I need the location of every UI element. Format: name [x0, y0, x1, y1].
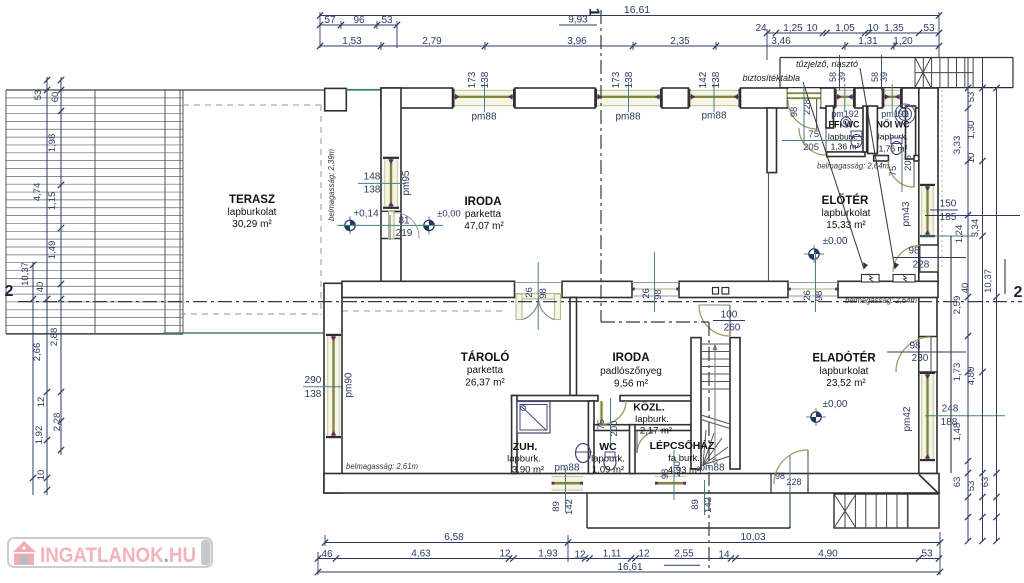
svg-text:39: 39 — [879, 72, 889, 82]
svg-text:205: 205 — [903, 155, 914, 171]
dim row bottom 6,58/10,03 — [322, 532, 943, 546]
svg-text:10: 10 — [867, 23, 879, 34]
svg-text:1,05: 1,05 — [835, 23, 855, 34]
svg-text:lapburkolat: lapburkolat — [820, 366, 869, 377]
window pm95 (148/138) in left wall — [383, 157, 399, 209]
svg-text:150: 150 — [940, 199, 957, 210]
entrance door 98/228 — [788, 89, 821, 130]
svg-text:26,37 m²: 26,37 m² — [465, 378, 505, 389]
outdoor stair bottom-right — [834, 494, 939, 528]
svg-text:1: 1 — [586, 8, 603, 16]
right exterior wall upper — [919, 88, 938, 282]
stair exit dim 98/230 — [660, 450, 683, 500]
eladoter bottom door 98/228 — [771, 450, 808, 493]
pm88 labels top — [471, 111, 726, 123]
svg-text:tűzjelző, riasztó: tűzjelző, riasztó — [796, 59, 858, 69]
svg-text:9,93: 9,93 — [568, 15, 588, 26]
svg-text:biztosítéktábla: biztosítéktábla — [742, 73, 800, 83]
svg-text:KÖZL.: KÖZL. — [633, 401, 665, 414]
svg-text:WC: WC — [599, 441, 617, 453]
svg-text:173: 173 — [467, 71, 478, 88]
elevation marker eladoter — [806, 408, 826, 426]
wc door 75/200 — [599, 401, 626, 425]
noi wc label — [877, 109, 910, 154]
svg-text:228: 228 — [913, 260, 930, 271]
window dim 148/138 — [358, 170, 412, 195]
svg-text:+0,14: +0,14 — [353, 209, 379, 220]
door dim 81/219 +014 — [337, 209, 461, 241]
window labels 173/138 #2 — [611, 71, 635, 88]
svg-text:185: 185 — [940, 212, 957, 223]
flue box 1 — [713, 288, 719, 295]
ffi wc door 75/205 — [799, 128, 834, 155]
svg-text:2: 2 — [5, 283, 14, 300]
window center line 1 — [484, 82, 486, 112]
stair door dim 100/260 — [713, 310, 745, 334]
window pm43 (150/185) right wall — [920, 184, 935, 237]
stair treads + up line — [701, 344, 730, 465]
svg-text:pm43: pm43 — [901, 201, 912, 226]
ffi wc label — [828, 109, 860, 152]
top wall pier 1 + room corner — [381, 88, 453, 108]
svg-text:lapburk.: lapburk. — [635, 414, 669, 425]
right door dim 150/185 — [901, 199, 1020, 227]
svg-text:53: 53 — [33, 90, 44, 101]
dim row top-right 24..53 — [755, 23, 942, 36]
wc toilet — [604, 452, 616, 470]
svg-text:lapburk.: lapburk. — [507, 454, 541, 465]
svg-text:padlószőnyeg: padlószőnyeg — [600, 366, 662, 377]
top wall pier 4 — [741, 88, 788, 108]
alarm box 2 — [893, 275, 915, 283]
svg-text:23,52 m²: 23,52 m² — [826, 378, 866, 389]
iroda 47 label — [464, 196, 504, 232]
svg-text:47,07 m²: 47,07 m² — [464, 221, 504, 232]
window labels 173/138 #1 — [467, 71, 491, 88]
svg-text:12: 12 — [36, 397, 47, 408]
svg-text:26: 26 — [802, 290, 813, 301]
dim row top 1,53...1,20 — [317, 36, 942, 49]
zuh left wall — [512, 396, 517, 474]
svg-text:2,59: 2,59 — [952, 296, 963, 315]
right dimension column — [951, 58, 1000, 545]
svg-text:138: 138 — [624, 71, 635, 88]
window labels 142/138 #3 — [698, 71, 722, 88]
eladoter door dim 98/230 — [887, 341, 966, 365]
svg-text:46: 46 — [321, 549, 333, 560]
svg-text:53: 53 — [966, 92, 977, 103]
left dimension column — [20, 77, 64, 495]
window dim 248/188 pm42 — [902, 404, 1005, 432]
pillar-to-wall tie line — [346, 89, 381, 91]
right exterior wall lower (eladoter) — [919, 296, 937, 474]
window center line noi — [891, 84, 893, 112]
stair landing door 100/260 — [699, 305, 730, 336]
svg-text:1,25: 1,25 — [783, 23, 803, 34]
leader to fuse box — [803, 82, 868, 269]
svg-text:2,35: 2,35 — [670, 36, 690, 47]
svg-text:1,49: 1,49 — [47, 241, 58, 260]
svg-text:98: 98 — [789, 107, 800, 118]
svg-text:98: 98 — [538, 288, 549, 299]
svg-text:±0,00: ±0,00 — [437, 209, 461, 220]
svg-text:53: 53 — [921, 549, 933, 560]
svg-text:belmagasság: 2,64m: belmagasság: 2,64m — [845, 295, 917, 305]
svg-text:53: 53 — [966, 481, 977, 492]
section line 1 upper (vertical dash-dot) — [600, 10, 602, 322]
window pm88 bottom (89/142) — [552, 475, 583, 492]
svg-text:138: 138 — [305, 389, 322, 400]
svg-text:53: 53 — [923, 23, 935, 34]
svg-text:148: 148 — [364, 172, 381, 183]
top wall pier 2 — [515, 88, 595, 108]
svg-text:81: 81 — [398, 216, 410, 227]
wall between wcs — [868, 106, 878, 154]
fuse box label — [742, 73, 800, 83]
svg-text:100: 100 — [721, 310, 738, 321]
svg-text:pm88: pm88 — [615, 112, 640, 123]
entrance porch outline — [587, 493, 790, 528]
svg-text:pm88: pm88 — [471, 112, 496, 123]
iroda2/zuh/kozl bottom wall b — [620, 396, 691, 402]
svg-text:75: 75 — [596, 419, 607, 430]
svg-text:TERASZ: TERASZ — [229, 194, 275, 206]
svg-text:205: 205 — [803, 142, 819, 153]
window center line ffi — [844, 84, 846, 112]
ffi wc bottom wall — [827, 152, 865, 157]
svg-text:10,37: 10,37 — [983, 269, 994, 293]
svg-text:63: 63 — [952, 477, 963, 488]
svg-text:±0,00: ±0,00 — [823, 236, 848, 247]
stair exit door 98/230 bottom — [655, 475, 686, 493]
belmagassag terasz — [326, 149, 336, 221]
svg-text:40: 40 — [960, 283, 971, 294]
wc window labels 58/39 — [828, 55, 889, 90]
svg-text:12: 12 — [574, 550, 586, 561]
svg-text:96: 96 — [353, 15, 365, 26]
bottom wall chamfer — [919, 475, 938, 493]
svg-text:ZUH.: ZUH. — [513, 441, 538, 453]
svg-text:15,33 m²: 15,33 m² — [826, 220, 866, 231]
right dotted eave line — [941, 90, 943, 268]
svg-text:4,80: 4,80 — [966, 367, 977, 386]
svg-text:4,74: 4,74 — [32, 183, 43, 202]
svg-text:2: 2 — [1014, 284, 1023, 301]
wc door dim 75/200 — [596, 398, 620, 444]
svg-text:63: 63 — [980, 477, 991, 488]
terrace deck hatch — [6, 90, 324, 334]
terrace roof overhang dashed outline — [180, 105, 505, 315]
wc label — [591, 441, 625, 476]
svg-text:6,58: 6,58 — [444, 532, 464, 543]
window pm90 (290/138) — [326, 334, 341, 438]
svg-text:10: 10 — [966, 153, 977, 164]
svg-text:2,79: 2,79 — [422, 36, 442, 47]
mid-wall opening 26/98 #3 — [788, 283, 838, 297]
belmagassag eloter — [845, 295, 917, 305]
svg-text:1,15: 1,15 — [47, 192, 58, 211]
ffi wc right wall — [863, 106, 867, 152]
mid wall pier D — [838, 281, 938, 297]
section mark 2 right bar — [1004, 259, 1006, 294]
elevation marker iroda left — [340, 216, 360, 234]
zuh/wc wall — [588, 401, 594, 474]
iroda/eloter wall stub — [767, 108, 777, 173]
dim row top-left 57/96/53 + 9,93 — [317, 15, 597, 29]
svg-text:260: 260 — [724, 323, 741, 334]
bottom exterior wall — [324, 474, 939, 494]
section line 1 lower — [708, 322, 710, 572]
mid-wall opening 26/98 #2 — [632, 283, 679, 297]
svg-text:±0,00: ±0,00 — [823, 399, 848, 410]
svg-text:pm95: pm95 — [401, 170, 412, 195]
section line 2 (horizontal dash-dot) — [18, 301, 1022, 303]
svg-text:LÉPCSŐHÁZ: LÉPCSŐHÁZ — [650, 439, 715, 452]
double door 26/98 iroda-tarolo — [515, 283, 563, 320]
svg-text:pm88: pm88 — [554, 463, 579, 474]
svg-text:1,36 m²: 1,36 m² — [831, 142, 860, 152]
top wall pier 3 — [662, 88, 688, 108]
svg-text:1,92: 1,92 — [34, 426, 45, 445]
svg-text:98: 98 — [660, 469, 671, 480]
window pm88 #3 (142/138) — [688, 89, 740, 108]
svg-text:1,24: 1,24 — [954, 225, 965, 244]
svg-text:TÁROLÓ: TÁROLÓ — [461, 351, 510, 364]
svg-text:10,03: 10,03 — [740, 532, 765, 543]
svg-text:1,20: 1,20 — [893, 36, 913, 47]
noi wc bottom wall b — [914, 156, 919, 162]
svg-text:pm90: pm90 — [344, 372, 355, 397]
window pm88 #2 (173/138) — [595, 89, 662, 108]
svg-text:40: 40 — [35, 282, 46, 293]
svg-text:30,29 m²: 30,29 m² — [232, 219, 272, 230]
svg-text:2,88: 2,88 — [49, 328, 60, 347]
svg-text:138: 138 — [711, 71, 722, 88]
stairwell left wall — [691, 338, 701, 469]
svg-text:89: 89 — [690, 499, 701, 510]
svg-text:1,76 m²: 1,76 m² — [879, 144, 908, 154]
leader to fire alarm box — [860, 68, 899, 269]
svg-text:2,28: 2,28 — [52, 413, 63, 432]
svg-text:ELADÓTÉR: ELADÓTÉR — [812, 352, 876, 365]
svg-text:9,56 m²: 9,56 m² — [614, 379, 649, 390]
elevation marker eloter — [804, 245, 824, 263]
noi wc door 75/205 — [888, 161, 914, 187]
bottom window dim 89/142 #1 — [551, 468, 575, 515]
svg-text:138: 138 — [480, 71, 491, 88]
section line 1 jog — [601, 321, 709, 323]
window pm88 #1 (173/138) — [453, 89, 516, 108]
ffi door dim 75/205 — [782, 129, 863, 153]
mid wall pier A — [342, 281, 515, 297]
svg-text:60: 60 — [50, 92, 61, 103]
svg-text:pm42: pm42 — [902, 406, 913, 431]
o1 dim 26/98 — [524, 262, 549, 330]
window center line 2 — [628, 82, 630, 112]
svg-text:98: 98 — [909, 341, 921, 352]
iroda2/zuh/kozl bottom wall a — [512, 396, 598, 402]
top wall pier 5c — [902, 88, 938, 108]
svg-text:39: 39 — [837, 72, 847, 82]
dim row bottom 16,61 — [315, 562, 943, 575]
svg-text:1,35: 1,35 — [884, 23, 904, 34]
bottom extension lines — [318, 532, 940, 575]
alarm box 1 — [862, 275, 880, 283]
svg-text:2,17 m²: 2,17 m² — [640, 426, 672, 437]
svg-text:75: 75 — [808, 129, 819, 140]
window dim 290/138 pm90 — [303, 372, 355, 400]
lepcsohaz label — [650, 439, 725, 476]
eladoter bottom door dim 98/228 — [775, 455, 802, 526]
o3 dim 26/98 — [802, 252, 825, 312]
mid wall pier C — [679, 281, 788, 297]
svg-text:IRODA: IRODA — [612, 352, 649, 364]
window pm42 (248/188) right wall — [920, 372, 935, 461]
svg-text:1,73: 1,73 — [952, 363, 963, 382]
svg-text:10,37: 10,37 — [20, 262, 31, 286]
flue box 2 — [722, 288, 729, 295]
svg-text:10: 10 — [36, 470, 47, 481]
wc top wall — [594, 425, 691, 431]
ffi wc window (58/39) — [835, 89, 855, 108]
svg-text:4,90: 4,90 — [818, 549, 838, 560]
top extension lines — [320, 12, 939, 60]
svg-text:3,46: 3,46 — [771, 36, 791, 47]
kozl-lepcsohaz door — [637, 431, 660, 454]
noi door dim 75/205 — [888, 150, 914, 192]
svg-text:98: 98 — [775, 471, 785, 481]
svg-text:16,61: 16,61 — [617, 562, 642, 573]
noi fan symbol — [895, 104, 915, 124]
svg-text:INGATLANOK.HU: INGATLANOK.HU — [40, 544, 196, 567]
svg-text:4,63: 4,63 — [411, 549, 431, 560]
svg-text:10: 10 — [806, 23, 818, 34]
svg-text:1,11: 1,11 — [603, 549, 622, 560]
svg-text:24: 24 — [755, 23, 767, 34]
lower-left wing wall — [324, 283, 342, 493]
belmagassag wc — [817, 161, 889, 171]
svg-text:98: 98 — [908, 246, 920, 257]
svg-text:IRODA: IRODA — [464, 196, 501, 208]
svg-text:142: 142 — [698, 71, 709, 88]
svg-text:89: 89 — [551, 501, 562, 512]
svg-text:1,30: 1,30 — [966, 121, 977, 140]
svg-text:pm88: pm88 — [699, 463, 724, 474]
svg-text:3,34: 3,34 — [970, 219, 981, 238]
fire alarm label — [796, 59, 858, 69]
svg-text:3,90 m²: 3,90 m² — [512, 465, 544, 476]
svg-text:1,93: 1,93 — [538, 549, 558, 560]
svg-text:290: 290 — [305, 375, 322, 386]
svg-text:16,61: 16,61 — [624, 4, 650, 16]
svg-text:75: 75 — [888, 166, 899, 177]
right door dim 98/228 — [893, 236, 975, 271]
eloter label — [822, 194, 871, 247]
svg-text:248: 248 — [942, 404, 959, 415]
svg-text:3,96: 3,96 — [567, 36, 587, 47]
tarolo label — [461, 351, 510, 389]
svg-text:parketta: parketta — [467, 365, 504, 376]
ffi toilet — [851, 131, 862, 148]
terasz label — [228, 194, 277, 230]
svg-text:173: 173 — [611, 71, 622, 88]
svg-text:2,55: 2,55 — [674, 549, 694, 560]
noi toilet — [891, 138, 902, 155]
svg-text:53: 53 — [381, 15, 393, 26]
svg-text:1,48: 1,48 — [952, 423, 963, 442]
noi wc bottom wall a — [874, 156, 889, 162]
elotir right door 98/228 — [893, 245, 938, 272]
svg-text:228: 228 — [786, 477, 801, 487]
svg-text:12: 12 — [499, 549, 511, 560]
svg-text:138: 138 — [364, 185, 381, 196]
upper-left exterior wall — [381, 88, 401, 283]
o2 dim 26/98 — [641, 252, 664, 312]
tarolo/iroda2 wall — [570, 298, 577, 396]
dim row top 16,61 — [317, 4, 942, 19]
iroda terrace door 81/219 — [381, 211, 419, 238]
kozl label — [633, 401, 672, 437]
svg-text:230: 230 — [912, 353, 929, 364]
svg-text:belmagasság: 2,61m: belmagasság: 2,61m — [346, 461, 418, 471]
svg-text:1,53: 1,53 — [342, 36, 362, 47]
wc right wall — [630, 425, 636, 474]
svg-text:ELŐTÉR: ELŐTÉR — [822, 194, 869, 207]
svg-text:57: 57 — [324, 15, 336, 26]
noi wc right wall — [906, 106, 916, 159]
svg-text:2,66: 2,66 — [32, 343, 43, 362]
svg-text:belmagasság: 2,64m: belmagasság: 2,64m — [817, 161, 889, 171]
dim row bottom 46..53 — [315, 549, 942, 562]
svg-text:parketta: parketta — [465, 209, 502, 220]
belmagassag tarolo — [346, 461, 418, 471]
shower tray — [517, 402, 550, 434]
svg-text:3,33: 3,33 — [952, 136, 963, 155]
svg-text:26: 26 — [524, 287, 535, 298]
top wall pier 5b — [855, 88, 882, 108]
mid wall pier B — [562, 281, 632, 297]
svg-text:belmagasság: 2,39m: belmagasság: 2,39m — [326, 149, 336, 221]
terrace pillar — [325, 88, 347, 110]
svg-text:26: 26 — [641, 288, 652, 299]
ffi wc left wall upper — [826, 106, 834, 128]
svg-text:14: 14 — [718, 550, 730, 561]
stairwell right wall — [730, 338, 740, 469]
noi wc window (58/39) — [882, 89, 902, 108]
svg-text:1,98: 1,98 — [47, 134, 58, 153]
window center line 3 — [713, 82, 715, 112]
bottom window dim 89/142 #2 — [690, 480, 714, 515]
svg-text:1,31: 1,31 — [858, 36, 878, 47]
iroda2 label — [600, 352, 662, 390]
terrace bottom edge line — [163, 332, 325, 334]
svg-text:pm88: pm88 — [701, 111, 726, 122]
elevation marker iroda right — [419, 216, 439, 234]
iroda/eloter boundary line — [768, 173, 770, 282]
eladoter right door 98/230 — [896, 337, 937, 373]
eladoter label — [812, 352, 876, 411]
washbasin — [575, 444, 592, 463]
outdoor stair top-right — [780, 58, 1013, 88]
zuh label — [507, 441, 580, 476]
top wall pier 5a — [821, 88, 835, 108]
ingatlanok.hu watermark — [8, 538, 212, 567]
ffi fan symbol — [841, 117, 851, 127]
svg-text:lapburkolat: lapburkolat — [228, 207, 277, 218]
svg-text:12: 12 — [638, 549, 650, 560]
entrance door labels 98/228 — [789, 84, 813, 143]
svg-text:219: 219 — [396, 228, 413, 239]
